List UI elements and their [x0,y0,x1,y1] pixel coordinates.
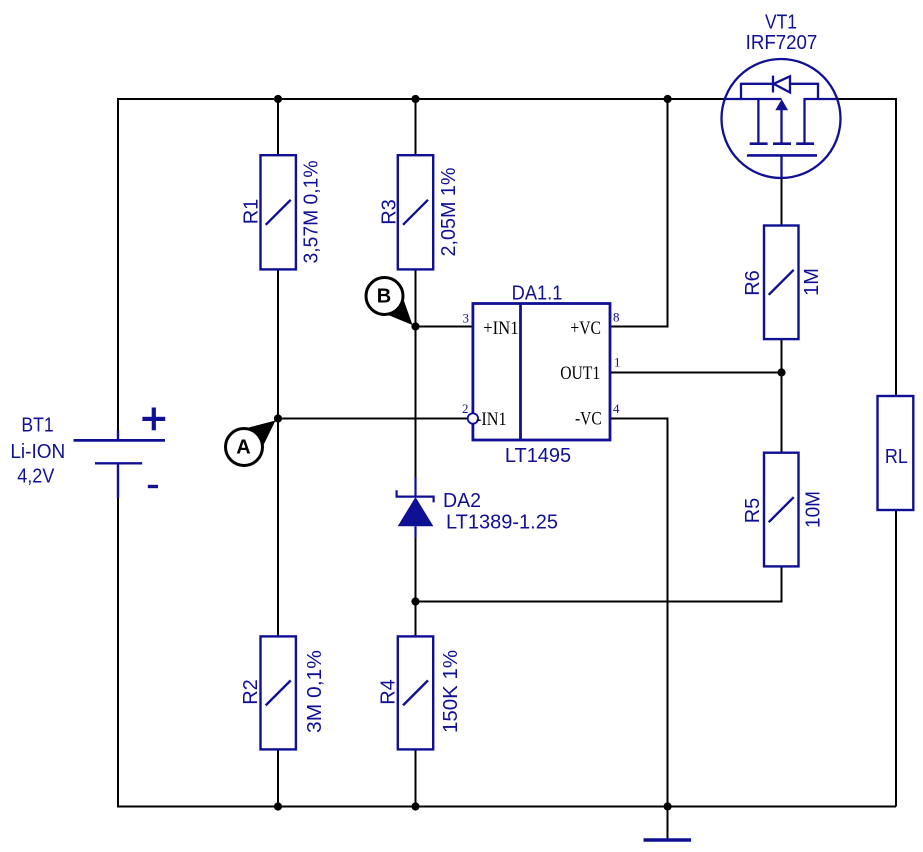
wire top bus [118,98,725,100]
svg-text:OUT1: OUT1 [560,364,600,384]
svg-text:B: B [377,286,391,308]
node B balloon [366,278,413,326]
svg-text:RL: RL [885,446,908,468]
svg-text:R1: R1 [241,199,263,225]
svg-text:3,57M 0,1%: 3,57M 0,1% [301,160,323,263]
op-amp inverting input bubble [468,413,478,423]
resistor R3 [398,155,433,269]
svg-text:DA2: DA2 [443,490,481,512]
node junction dots [274,95,786,811]
svg-text:R3: R3 [379,199,401,225]
svg-text:DA1.1: DA1.1 [512,283,563,305]
svg-text:Li-ION: Li-ION [10,441,65,463]
wire left bus lower [117,497,119,808]
resistor R6 [764,226,799,340]
wire R1 top lead [277,99,279,156]
diode DA2 [397,477,434,538]
wire DA2 to R4 junction [415,537,417,637]
wire ground stub [667,807,669,839]
svg-text:R5: R5 [742,498,764,524]
svg-text:2: 2 [462,401,469,416]
battery plus sign [142,408,165,431]
wire R5 bottom to R4 junction [416,566,782,601]
svg-text:A: A [236,437,250,459]
wire top right from VT1 to right bus [838,98,897,100]
resistor R5 [764,453,799,567]
svg-text:LT1389-1.25: LT1389-1.25 [446,511,558,533]
svg-text:1M: 1M [801,268,823,296]
wire right bus upper [895,98,897,396]
svg-text:VT1: VT1 [765,12,797,34]
wire node B to +IN1 [416,326,473,328]
svg-text:3M 0,1%: 3M 0,1% [304,650,326,733]
op-amp U DA1.1 box [473,304,610,441]
svg-text:LT1495: LT1495 [505,445,571,467]
wire -VC to bottom bus [610,419,668,807]
wire R1 bottom to R2 top through node A [277,270,279,637]
svg-text:3: 3 [463,310,470,325]
transistor Q VT1 [722,59,841,178]
svg-text:150K 1%: 150K 1% [440,650,462,733]
svg-text:BT1: BT1 [21,415,53,437]
svg-text:+IN1: +IN1 [483,319,518,339]
svg-text:10M: 10M [803,491,825,528]
wire VT1 gate to R6 [781,178,783,225]
wire node A to -IN1 [278,418,468,420]
svg-text:R2: R2 [240,679,262,705]
wire right bus lower [895,510,897,807]
svg-text:-VC: -VC [575,410,602,430]
svg-text:R6: R6 [742,270,764,296]
wire R6 bottom to R5 top [781,339,783,453]
transistor substrate arrow [775,99,788,110]
wire left bus upper [117,98,119,432]
resistor R4 [398,636,433,749]
ground [644,838,692,842]
wire R4 bottom lead [415,750,417,807]
wire R3 top lead [415,99,417,156]
resistor R2 [261,636,296,749]
svg-text:2,05M 1%: 2,05M 1% [438,167,460,256]
svg-text:4,2V: 4,2V [17,466,55,488]
svg-text:+VC: +VC [570,319,601,339]
svg-text:8: 8 [613,310,620,325]
node A balloon [226,421,276,466]
wire R3 bottom to DA2 [415,270,417,479]
resistor RL [878,396,914,510]
resistor R1 [261,155,296,269]
svg-text:IRF7207: IRF7207 [746,32,818,54]
wire OUT1 to R5/R6 junction [610,372,782,374]
svg-text:-IN1: -IN1 [476,410,507,430]
wire R2 bottom lead [277,750,279,807]
battery BT1 [74,431,166,499]
wire bottom bus [118,806,896,808]
svg-text:R4: R4 [378,679,400,705]
wire +VC to top bus [610,98,668,327]
svg-text:4: 4 [613,401,620,416]
svg-text:1: 1 [614,355,621,370]
battery minus sign [148,485,158,488]
